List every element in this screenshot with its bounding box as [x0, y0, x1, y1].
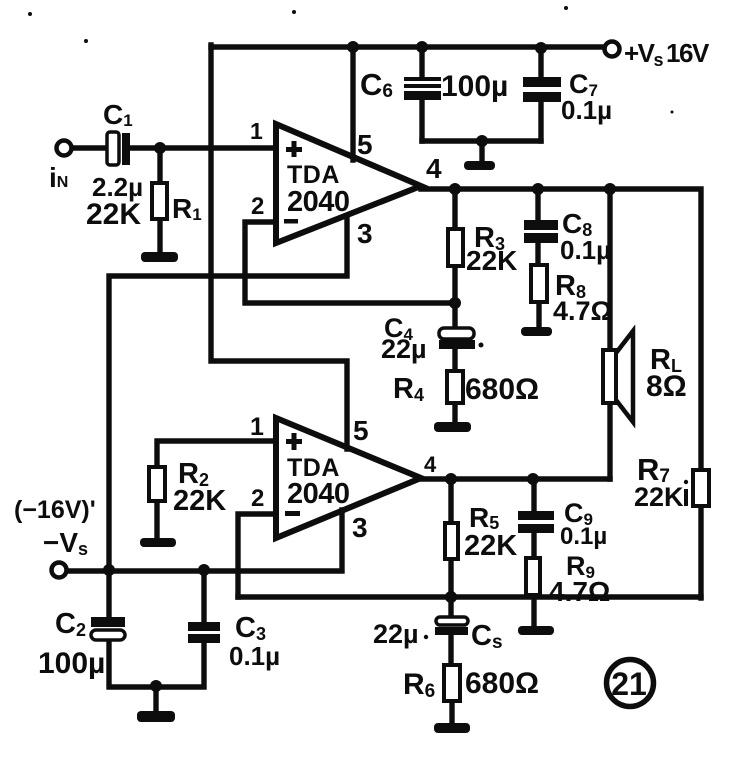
svg-text:22µ: 22µ — [373, 619, 419, 649]
svg-text:1: 1 — [250, 413, 264, 441]
svg-text:2040: 2040 — [287, 478, 350, 510]
svg-text:TDA: TDA — [287, 161, 340, 189]
svg-text:5: 5 — [353, 415, 369, 446]
svg-text:22K: 22K — [173, 485, 226, 517]
svg-text:21: 21 — [611, 666, 647, 702]
svg-text:100µ: 100µ — [38, 647, 105, 680]
svg-text:0.1µ: 0.1µ — [229, 641, 280, 671]
svg-text:2: 2 — [251, 193, 264, 220]
svg-text:680Ω: 680Ω — [465, 373, 539, 406]
svg-text:22K: 22K — [464, 530, 517, 562]
svg-text:0.1µ: 0.1µ — [560, 523, 607, 550]
svg-text:0.1µ: 0.1µ — [561, 95, 612, 125]
svg-text:4: 4 — [426, 153, 442, 184]
svg-text:3: 3 — [357, 218, 373, 249]
svg-text:100µ: 100µ — [441, 70, 508, 103]
svg-text:5: 5 — [357, 129, 373, 160]
svg-text:(−16V)': (−16V)' — [14, 496, 96, 524]
svg-text:0.1µ: 0.1µ — [560, 235, 611, 265]
svg-text:22K: 22K — [634, 482, 684, 512]
svg-text:+Vs16V: +Vs16V — [624, 38, 710, 70]
svg-text:1: 1 — [250, 118, 263, 144]
svg-text:22K: 22K — [466, 245, 517, 276]
svg-text:22K: 22K — [86, 198, 141, 231]
svg-text:2: 2 — [251, 485, 264, 512]
svg-text:2040: 2040 — [287, 186, 350, 218]
svg-text:22µ: 22µ — [381, 334, 427, 364]
svg-text:680Ω: 680Ω — [465, 667, 539, 700]
svg-text:8Ω: 8Ω — [646, 370, 687, 403]
svg-text:3: 3 — [352, 512, 368, 543]
svg-text:4.7Ω: 4.7Ω — [549, 576, 610, 607]
svg-text:4.7Ω: 4.7Ω — [553, 296, 612, 326]
svg-text:4: 4 — [424, 452, 437, 477]
